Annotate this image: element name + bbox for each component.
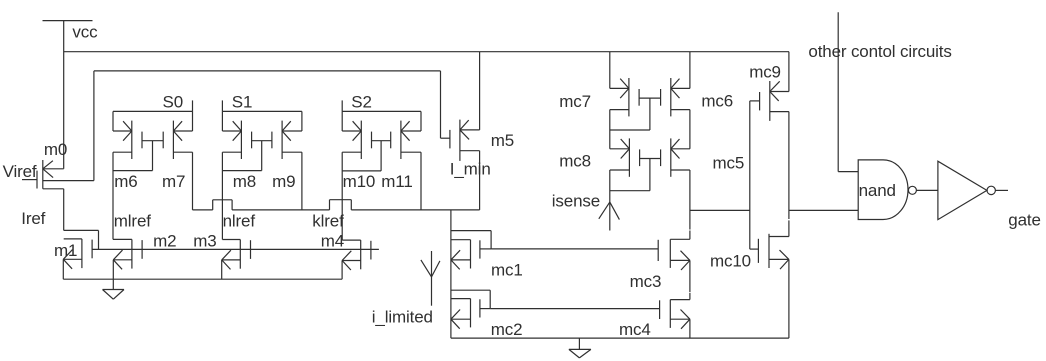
gate label	[1008, 211, 1041, 230]
node I_min label	[450, 160, 491, 179]
svg-text:m6: m6	[114, 172, 137, 191]
S0 gate tie	[113, 141, 163, 171]
svg-text:Iref: Iref	[21, 209, 45, 228]
wire tap drop / mc1 mc2 column	[450, 210, 452, 338]
svg-text:S2: S2	[351, 93, 372, 112]
svg-text:m0: m0	[44, 140, 67, 159]
transistor mc6	[661, 78, 690, 116]
S0 label	[163, 92, 184, 111]
transistor m8	[222, 121, 251, 159]
quad bottom gate tie	[610, 159, 661, 191]
transistor m9	[272, 121, 302, 159]
wire m5 source down	[479, 151, 481, 210]
transistor m4	[342, 240, 371, 270]
svg-text:S0: S0	[163, 92, 184, 111]
node S0 stub	[192, 100, 194, 111]
transistor m1	[63, 239, 92, 269]
mc6 label	[701, 92, 733, 111]
svg-text:m10: m10	[343, 172, 376, 191]
mc9 label	[749, 63, 781, 82]
svg-text:Viref: Viref	[3, 162, 37, 181]
wire nand lower input	[789, 209, 858, 211]
svg-text:i_limited: i_limited	[372, 308, 433, 327]
transistor m11	[391, 121, 421, 159]
wire m9 source down	[301, 152, 303, 210]
node nlref label	[223, 212, 256, 231]
svg-text:I_min: I_min	[450, 160, 491, 179]
wire mc9 gate column	[749, 101, 751, 249]
transistor m7	[163, 121, 192, 159]
ground (left)	[103, 290, 125, 300]
wire left col mid	[609, 110, 611, 149]
S2 label	[351, 93, 372, 112]
m1 label	[54, 241, 77, 260]
svg-text:isense: isense	[552, 192, 600, 211]
m10 label	[343, 172, 376, 191]
m0 label	[44, 140, 67, 159]
svg-text:mc2: mc2	[491, 320, 523, 339]
wire bottom-left rail	[63, 278, 342, 280]
wire quad drain drops	[610, 52, 690, 89]
m9 label	[272, 172, 295, 191]
wire mlref vertical	[113, 152, 132, 239]
svg-text:m1: m1	[54, 241, 77, 260]
transistor mc2 (diode)	[451, 290, 490, 329]
wire rail1 (vcc top rail)	[64, 51, 789, 53]
node klref label	[312, 212, 344, 231]
transistor m6	[113, 121, 142, 159]
wire gate rail mc1-mc3	[491, 248, 658, 250]
wire mc9 source down	[788, 112, 790, 219]
svg-text:nlref: nlref	[223, 212, 256, 231]
S1 gate tie	[222, 141, 272, 171]
vcc label	[72, 23, 98, 42]
m4 label	[321, 231, 344, 250]
transistor mc1 (diode)	[451, 231, 491, 270]
svg-text:m3: m3	[193, 231, 216, 250]
svg-text:nand: nand	[859, 181, 896, 200]
svg-text:mc10: mc10	[710, 251, 751, 270]
node mlref label	[114, 212, 151, 231]
wire mc3 source down	[689, 260, 691, 292]
node Viref label	[3, 162, 37, 181]
wire mc5 out to nand net	[690, 209, 750, 211]
svg-text:klref: klref	[312, 212, 344, 231]
m8 label	[233, 172, 256, 191]
svg-text:m11: m11	[381, 172, 412, 191]
svg-text:mc9: mc9	[749, 63, 781, 82]
ground (middle)	[569, 338, 591, 358]
mc1 label	[491, 261, 523, 280]
wire bottom rail (right section)	[451, 337, 789, 339]
transistor mc9	[750, 81, 789, 121]
nand gate U1	[858, 160, 916, 220]
svg-text:mc8: mc8	[559, 152, 591, 171]
terminal isense	[599, 170, 620, 231]
transistor mc5	[661, 138, 690, 176]
other contol circuits label	[808, 42, 951, 61]
svg-text:m4: m4	[321, 231, 344, 250]
wire mc10 source down	[788, 259, 790, 338]
quad top gate tie	[610, 98, 661, 130]
wire S0 drain drops	[113, 111, 193, 131]
node S2 stub	[341, 100, 343, 111]
transistor m10	[342, 121, 371, 159]
nand label	[859, 181, 896, 200]
wire m7 source down	[192, 152, 194, 210]
wire other-control input	[838, 12, 858, 171]
terminal i_limited arrow	[421, 251, 440, 306]
wire rail2 (m0 drain to m5 gate)	[94, 71, 441, 181]
wire nand to inverter	[916, 189, 938, 191]
wire S2 drain drops	[342, 111, 421, 131]
svg-text:gate: gate	[1008, 211, 1041, 230]
svg-text:mc1: mc1	[491, 261, 523, 280]
svg-text:vcc: vcc	[72, 23, 98, 42]
mc3 label	[630, 272, 662, 291]
m3 label	[193, 231, 216, 250]
wire m4 source down	[341, 261, 343, 280]
vcc power bar	[43, 20, 93, 22]
transistor m5	[441, 120, 480, 161]
wire S2 top rail	[342, 110, 421, 112]
inverter U2	[938, 161, 996, 219]
svg-text:m5: m5	[491, 131, 514, 150]
mc5 label	[713, 153, 745, 172]
svg-text:mc3: mc3	[630, 272, 662, 291]
S1 label	[232, 92, 253, 111]
m5 label	[491, 131, 514, 150]
node S1 stub	[221, 100, 223, 111]
m2 label	[153, 231, 176, 250]
svg-text:mc6: mc6	[701, 92, 733, 111]
m11 label	[381, 172, 412, 191]
wire nlref vertical	[222, 152, 240, 239]
transistor mc4	[660, 293, 690, 329]
transistor m3	[222, 240, 251, 270]
wire S1 drain drops	[222, 111, 302, 131]
svg-text:m8: m8	[233, 172, 256, 191]
wire tap rail (selected reference)	[193, 200, 480, 210]
wire m3 source down	[221, 260, 223, 279]
wire m11 source down	[420, 152, 422, 210]
mc2 label	[491, 320, 523, 339]
svg-text:S1: S1	[232, 92, 253, 111]
wire gate rail m1-m4	[92, 248, 379, 250]
wire S1 top rail	[222, 110, 302, 112]
mc8 label	[559, 152, 591, 171]
svg-text:mc4: mc4	[619, 320, 651, 339]
svg-text:mc5: mc5	[713, 153, 745, 172]
svg-text:other contol circuits: other contol circuits	[808, 42, 951, 61]
wire gate rail mc2-mc4	[490, 308, 659, 310]
svg-text:m2: m2	[153, 231, 176, 250]
wire m2 source down + ground stem	[112, 260, 114, 290]
wire right col mid	[689, 110, 691, 149]
mc10 label	[710, 251, 751, 270]
svg-text:mlref: mlref	[114, 212, 151, 231]
transistor mc7	[610, 78, 639, 116]
mc7 label	[559, 92, 591, 111]
isense label	[552, 192, 600, 211]
m1 diode tie wires	[64, 230, 99, 249]
svg-text:mc7: mc7	[559, 92, 591, 111]
mc4 label	[619, 320, 651, 339]
wire right col to mc3	[689, 170, 691, 239]
wire Iref vertical	[63, 189, 65, 231]
S2 gate tie	[342, 141, 391, 171]
wire m1 source down	[62, 259, 64, 279]
transistor mc10	[750, 220, 789, 269]
wire inverter output	[995, 189, 1008, 191]
wire vcc vertical	[63, 21, 65, 169]
svg-text:m7: m7	[162, 172, 185, 191]
wire rail1 drop to mc9	[788, 52, 790, 92]
m6 label	[114, 172, 137, 191]
i_limited label	[372, 308, 433, 327]
transistor mc3	[658, 239, 690, 270]
node Iref label	[21, 209, 45, 228]
wire m5 drain riser	[479, 52, 481, 130]
wire klref vertical	[342, 152, 361, 240]
wire mc4 source down	[689, 319, 691, 338]
svg-text:m9: m9	[272, 172, 295, 191]
m7 label	[162, 172, 185, 191]
transistor m0	[22, 160, 94, 189]
transistor m2	[113, 239, 142, 269]
transistor mc8	[610, 138, 640, 176]
wire S0 top rail	[113, 110, 193, 112]
